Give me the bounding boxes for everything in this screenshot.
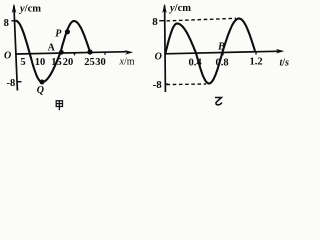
x ticks left: [75, 52, 106, 55]
svg-text:1.2: 1.2: [249, 57, 262, 68]
svg-text:y/cm: y/cm: [168, 3, 191, 14]
dot P on curve: [65, 29, 70, 34]
svg-text:15: 15: [51, 57, 62, 68]
svg-text:-8: -8: [153, 79, 163, 91]
label 甲 (drawn): [56, 101, 62, 111]
svg-text:Q: Q: [37, 85, 44, 96]
dashed -8 line right: [167, 83, 207, 86]
y-axis arrowhead left: [12, 4, 17, 14]
svg-text:x/m: x/m: [119, 57, 135, 68]
end dot x=25: [87, 49, 92, 54]
dot A on axis: [59, 50, 64, 55]
y-axis right: [164, 6, 167, 93]
svg-text:20: 20: [63, 57, 74, 68]
wave curve left: [16, 21, 91, 82]
svg-text:y/cm: y/cm: [18, 3, 41, 14]
svg-text:A: A: [48, 43, 56, 54]
x tick labels right: [188, 57, 262, 69]
svg-text:O: O: [4, 50, 11, 61]
y-axis left: [14, 6, 18, 91]
x tick labels left: [20, 57, 105, 68]
svg-text:-8: -8: [7, 78, 16, 89]
svg-text:B: B: [217, 41, 225, 52]
x-axis right: [165, 51, 281, 54]
tick -8 left: [17, 81, 22, 83]
dot Q on trough: [40, 80, 45, 85]
svg-text:30: 30: [95, 57, 106, 68]
x-axis left: [16, 52, 128, 54]
tick +8 left: [12, 20, 16, 22]
label 乙 (drawn): [215, 98, 222, 105]
y-axis arrowhead right: [162, 4, 167, 14]
tick +8 right: [159, 20, 164, 22]
svg-text:10: 10: [35, 57, 46, 68]
dashed +8 line right: [167, 18, 237, 21]
svg-text:P: P: [55, 28, 62, 39]
wave curve right: [165, 19, 255, 84]
svg-text:0.4: 0.4: [188, 58, 202, 69]
svg-text:8: 8: [152, 16, 158, 28]
svg-text:O: O: [155, 51, 162, 62]
svg-text:25: 25: [84, 57, 95, 68]
x-axis arrowhead right: [276, 49, 285, 54]
tick -8 right: [165, 83, 169, 85]
svg-text:0.8: 0.8: [215, 58, 228, 69]
x-axis arrowhead left: [125, 50, 134, 55]
svg-text:5: 5: [20, 57, 25, 68]
svg-text:t/s: t/s: [280, 58, 290, 69]
x ticks right: [197, 52, 257, 56]
svg-text:8: 8: [4, 18, 9, 29]
